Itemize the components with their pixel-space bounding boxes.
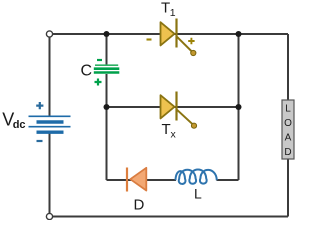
svg-text:L: L	[194, 186, 202, 202]
svg-text:D: D	[134, 197, 145, 214]
svg-text:C: C	[81, 63, 93, 80]
svg-text:O: O	[284, 118, 292, 129]
svg-text:A: A	[285, 133, 292, 144]
svg-text:T: T	[162, 121, 171, 138]
svg-text:L: L	[285, 104, 291, 115]
svg-text:D: D	[284, 147, 291, 158]
svg-text:x: x	[171, 129, 177, 141]
svg-text:T: T	[161, 0, 170, 17]
svg-text:dc: dc	[13, 119, 26, 131]
svg-text:1: 1	[170, 7, 176, 19]
